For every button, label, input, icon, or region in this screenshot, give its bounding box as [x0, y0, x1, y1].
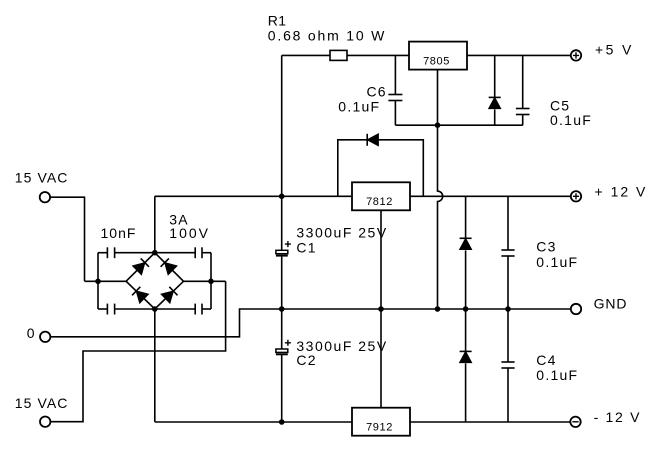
svg-text:C6: C6 — [367, 84, 387, 100]
svg-text:0.68 ohm 10 W: 0.68 ohm 10 W — [268, 27, 386, 43]
svg-text:- 12 V: - 12 V — [594, 409, 642, 425]
svg-text:7805: 7805 — [423, 55, 450, 67]
svg-text:0.1uF: 0.1uF — [536, 254, 578, 270]
svg-text:15 VAC: 15 VAC — [15, 395, 69, 411]
svg-text:C4: C4 — [536, 352, 556, 368]
svg-text:10nF: 10nF — [101, 225, 137, 241]
svg-text:0.1uF: 0.1uF — [536, 367, 578, 383]
svg-text:GND: GND — [594, 296, 628, 312]
svg-text:100V: 100V — [169, 225, 210, 241]
svg-text:0: 0 — [27, 325, 35, 341]
svg-text:C2: C2 — [296, 352, 316, 368]
svg-text:15 VAC: 15 VAC — [15, 169, 69, 185]
svg-text:+5 V: +5 V — [595, 42, 634, 58]
svg-text:7912: 7912 — [366, 422, 393, 434]
svg-text:7812: 7812 — [366, 196, 393, 208]
svg-text:C3: C3 — [536, 239, 556, 255]
svg-text:+ 12 V: + 12 V — [595, 183, 648, 199]
svg-text:C1: C1 — [296, 239, 316, 255]
svg-text:0.1uF: 0.1uF — [338, 99, 380, 115]
svg-text:0.1uF: 0.1uF — [550, 112, 592, 128]
svg-text:3300uF 25V: 3300uF 25V — [296, 225, 387, 241]
svg-text:R1: R1 — [268, 12, 287, 28]
